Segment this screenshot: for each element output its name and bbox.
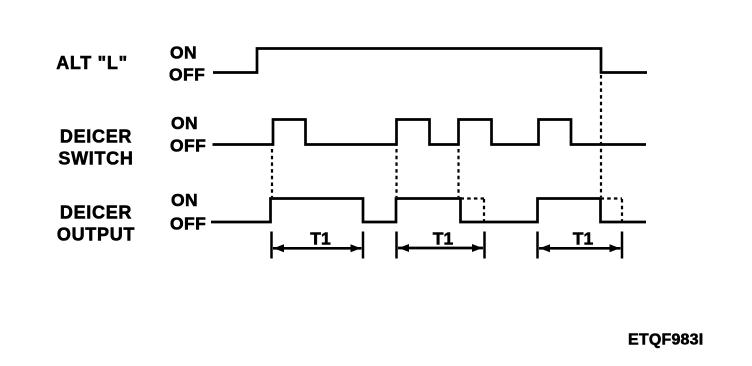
svg-text:ON: ON bbox=[171, 113, 198, 133]
svg-text:OFF: OFF bbox=[170, 214, 206, 234]
svg-text:OUTPUT: OUTPUT bbox=[57, 225, 135, 245]
T1 dimension 3 arrow line bbox=[539, 247, 621, 250]
svg-text:DEICER: DEICER bbox=[60, 203, 132, 223]
wire DEICER OUTPUT signal bbox=[211, 199, 646, 223]
dashed extension of output pulse 2 bbox=[461, 199, 485, 222]
T1 dimension 1 arrow line bbox=[273, 247, 362, 250]
T1 dimension 1 left arrowhead bbox=[274, 244, 285, 252]
svg-text:T1: T1 bbox=[310, 229, 331, 249]
svg-text:T1: T1 bbox=[433, 229, 454, 249]
T1 dimension 3 right bar bbox=[621, 232, 624, 259]
T1 dimension 3 left arrowhead bbox=[540, 244, 551, 252]
T1 dimension 2 left bar bbox=[395, 232, 398, 259]
T1 dimension 1 right arrowhead bbox=[351, 244, 362, 252]
dashed line from switch pulse 1 to output pulse 1 bbox=[271, 149, 273, 197]
T1 dimension 2 arrow line bbox=[398, 247, 483, 250]
svg-text:T1: T1 bbox=[573, 229, 594, 249]
T1 dimension 2 left arrowhead bbox=[399, 244, 410, 252]
dashed line from switch pulse 3 to output pulse 2 fall bbox=[457, 149, 459, 197]
svg-text:OFF: OFF bbox=[169, 65, 205, 85]
T1 dimension 2 right bar bbox=[483, 232, 486, 259]
T1 dimension 3 right arrowhead bbox=[610, 244, 621, 252]
svg-text:DEICER: DEICER bbox=[60, 127, 132, 147]
svg-text:OFF: OFF bbox=[170, 136, 206, 156]
dashed line from switch pulse 2 to output pulse 2 bbox=[395, 149, 397, 197]
wire ALT L signal bbox=[213, 49, 647, 73]
T1 dimension 2 right arrowhead bbox=[472, 244, 483, 252]
wire DEICER SWITCH signal bbox=[213, 120, 647, 145]
svg-text:ON: ON bbox=[170, 43, 197, 63]
svg-text:SWITCH: SWITCH bbox=[58, 149, 133, 169]
T1 dimension 3 left bar bbox=[536, 232, 539, 259]
T1 dimension 1 right bar bbox=[362, 232, 365, 259]
svg-text:ON: ON bbox=[171, 190, 198, 210]
T1 dimension 1 left bar bbox=[270, 232, 273, 259]
dashed extension of output pulse 3 bbox=[601, 199, 623, 222]
dashed line from ALT L fall down to output bbox=[600, 75, 602, 197]
svg-text:ETQF983I: ETQF983I bbox=[628, 332, 703, 349]
svg-text:ALT "L": ALT "L" bbox=[56, 53, 128, 73]
